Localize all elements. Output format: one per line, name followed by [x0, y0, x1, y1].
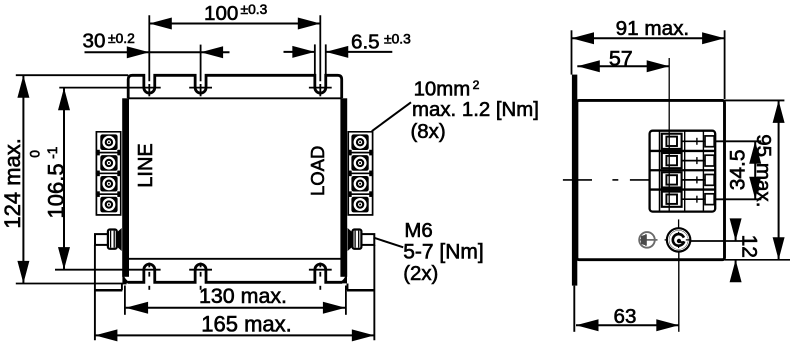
svg-text:6.5: 6.5	[351, 31, 380, 54]
svg-text:34.5: 34.5	[727, 149, 750, 190]
svg-text:12: 12	[737, 235, 760, 258]
svg-text:124 max.: 124 max.	[0, 138, 25, 229]
svg-text:M6: M6	[404, 220, 432, 242]
svg-text:±0.3: ±0.3	[384, 31, 411, 46]
svg-text:(8x): (8x)	[411, 121, 446, 143]
svg-text:63: 63	[614, 305, 637, 328]
svg-text:165 max.: 165 max.	[201, 312, 292, 337]
svg-text:91 max.: 91 max.	[616, 17, 690, 40]
svg-text:57: 57	[609, 46, 633, 70]
svg-text:2: 2	[473, 78, 480, 92]
svg-text:±0.3: ±0.3	[241, 2, 268, 17]
svg-text:0: 0	[28, 150, 43, 158]
svg-text:5-7 [Nm]: 5-7 [Nm]	[403, 241, 484, 264]
svg-text:LOAD: LOAD	[307, 146, 328, 196]
svg-text:130 max.: 130 max.	[199, 284, 287, 308]
svg-text:106.5: 106.5	[44, 163, 69, 218]
svg-text:(2x): (2x)	[403, 263, 438, 285]
svg-text:100: 100	[204, 2, 238, 25]
svg-text:-1: -1	[45, 147, 60, 159]
svg-text:10mm: 10mm	[414, 79, 471, 101]
svg-text:±0.2: ±0.2	[108, 31, 135, 46]
svg-text:30: 30	[83, 29, 106, 52]
svg-text:max. 1.2 [Nm]: max. 1.2 [Nm]	[412, 99, 539, 121]
svg-text:LINE: LINE	[135, 143, 157, 187]
